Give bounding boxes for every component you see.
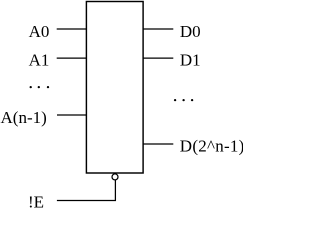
svg-text:D1: D1 (180, 51, 201, 70)
svg-text:!E: !E (28, 193, 44, 210)
svg-text:D(2^n-1): D(2^n-1) (180, 136, 243, 155)
svg-text:D0: D0 (180, 22, 201, 41)
svg-text:A0: A0 (29, 22, 50, 41)
svg-text:A1: A1 (29, 51, 50, 70)
svg-text:A(n-1): A(n-1) (1, 108, 47, 127)
